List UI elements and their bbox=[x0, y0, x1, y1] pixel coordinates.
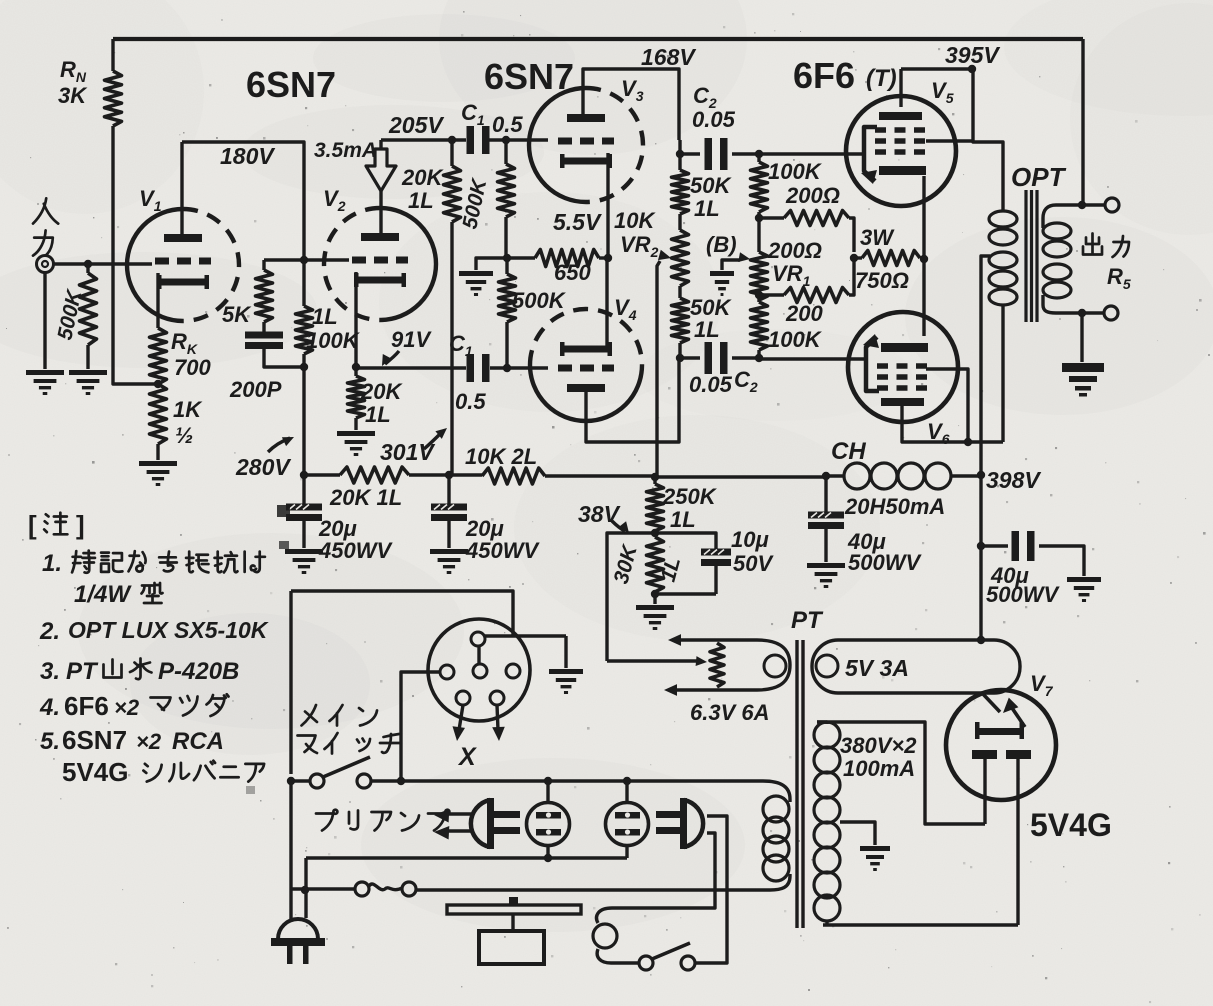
X pin arrow left bbox=[453, 705, 466, 741]
wire to top terminal bbox=[1082, 203, 1105, 206]
wire to bottom terminal bbox=[1082, 311, 1104, 314]
svg-text:×2: ×2 bbox=[136, 729, 162, 754]
svg-text:10μ: 10μ bbox=[731, 527, 769, 552]
resistor 5K bbox=[222, 260, 273, 333]
pilot lamp loop bbox=[593, 908, 639, 963]
dial plate bar bbox=[447, 897, 581, 914]
node 100K/200 junction upper bbox=[755, 214, 763, 222]
node 38V junction bbox=[651, 529, 659, 537]
node 40uF junction bbox=[822, 472, 830, 480]
heater winding loop bbox=[757, 640, 790, 690]
wire heater box top bbox=[291, 591, 513, 636]
node 398V rail junction bbox=[651, 473, 659, 481]
wire input shield down bbox=[43, 272, 46, 369]
label 6SN7 second bbox=[484, 56, 574, 97]
wire plug2 bottom lead bbox=[612, 833, 715, 908]
resistor 50K 1L upper bbox=[672, 140, 733, 221]
socket 1 bbox=[527, 803, 570, 846]
ground bias node bbox=[459, 271, 493, 296]
node output bottom junction bbox=[1078, 309, 1086, 317]
resistor 200 ohm lower bbox=[759, 258, 854, 326]
ground 500K input bbox=[69, 370, 107, 395]
svg-text:10K: 10K bbox=[614, 208, 656, 233]
svg-text:1L: 1L bbox=[312, 304, 338, 329]
X socket pin link bbox=[477, 646, 480, 664]
wire V5 plate lead bbox=[899, 69, 902, 107]
wire V5 screen tie bbox=[926, 139, 973, 142]
svg-text:(T): (T) bbox=[866, 65, 897, 92]
OPT primary center tap bbox=[981, 256, 990, 475]
svg-text:398V: 398V bbox=[986, 467, 1041, 493]
wire plate load down to 301V rail bbox=[450, 222, 453, 475]
wire V6 grid bbox=[759, 357, 864, 360]
svg-text:1L: 1L bbox=[408, 188, 434, 213]
fuse bbox=[355, 882, 416, 896]
label 6.3V 6A bbox=[690, 700, 770, 725]
resistor 500K input bbox=[53, 264, 96, 369]
resistor 750 ohm 3W bbox=[854, 225, 924, 293]
svg-text:301V: 301V bbox=[380, 439, 435, 465]
wire plug stem bbox=[289, 781, 292, 919]
resistor Rk 700 bbox=[150, 328, 212, 384]
wire V2 cathode lead bbox=[354, 272, 357, 367]
svg-text:200: 200 bbox=[785, 301, 823, 326]
wire NFB left drop bbox=[111, 39, 114, 71]
scan artifact marks bbox=[246, 505, 290, 794]
X socket circle bbox=[428, 619, 530, 721]
resistor 500K (V3 grid leak) bbox=[458, 140, 514, 258]
node 750 junction bbox=[850, 254, 858, 262]
wire V7 right plate lead bbox=[1016, 759, 1019, 925]
svg-text:6F6: 6F6 bbox=[793, 55, 855, 96]
svg-text:]: ] bbox=[76, 510, 85, 540]
svg-text:20K: 20K bbox=[360, 379, 403, 404]
label 6F6(T) bbox=[793, 55, 897, 96]
wire 398V down to 5V winding bbox=[979, 475, 982, 640]
wire socket2 bottom bbox=[625, 845, 628, 858]
tube V5 6F6 bbox=[846, 78, 956, 206]
node 395V junction bbox=[968, 65, 976, 73]
PT HV winding 380Vx2 bbox=[814, 722, 917, 925]
wire row2 bbox=[306, 854, 627, 862]
label 280V with arrow bbox=[235, 437, 294, 480]
node 91V junction bbox=[352, 363, 360, 371]
note header [注] bbox=[28, 510, 85, 540]
svg-text:5V4G: 5V4G bbox=[1030, 807, 1112, 843]
ground 30K bbox=[636, 594, 674, 630]
node 40uF second junction bbox=[977, 542, 985, 550]
ground 20uF first bbox=[285, 549, 323, 574]
capacitor 40uF 500WV second bbox=[981, 531, 1084, 607]
HV center tap bbox=[840, 822, 875, 845]
resistor 30K 1L bbox=[610, 537, 686, 592]
X socket pin bottom-left bbox=[456, 691, 470, 705]
svg-text:3K: 3K bbox=[58, 83, 88, 108]
label OPT bbox=[1011, 162, 1067, 192]
wire switch line to PT primary bbox=[763, 781, 790, 799]
resistor 500K (V4 grid leak) bbox=[499, 258, 567, 368]
svg-text:(B): (B) bbox=[706, 232, 737, 257]
OPT secondary top bbox=[1043, 205, 1082, 228]
svg-text:100mA: 100mA bbox=[843, 756, 915, 781]
resistor 1L 100K (V2 grid leak) bbox=[296, 260, 361, 367]
svg-text:1L: 1L bbox=[694, 317, 720, 342]
note 3 PT 山水 P-420B bbox=[40, 658, 239, 685]
svg-text:500WV: 500WV bbox=[986, 582, 1060, 607]
svg-text:6SN7: 6SN7 bbox=[484, 56, 574, 97]
note 1 特記なき抵抗は bbox=[42, 550, 265, 577]
note 1b 1/4W型 bbox=[74, 581, 163, 608]
resistor 20K 1L rail bbox=[304, 467, 449, 510]
socket 2 bbox=[606, 803, 649, 846]
resistor 1K 1/2W bbox=[150, 384, 204, 448]
node 301V junction bbox=[445, 471, 453, 479]
label 3.5mA bbox=[314, 139, 377, 162]
svg-text:6SN7: 6SN7 bbox=[62, 725, 127, 755]
svg-text:100K: 100K bbox=[306, 328, 361, 353]
svg-text:91V: 91V bbox=[391, 327, 432, 352]
svg-text:1/4W: 1/4W bbox=[74, 581, 132, 608]
wire top rail down to output bbox=[1081, 39, 1084, 205]
svg-text:1L: 1L bbox=[365, 402, 391, 427]
wire 205V V2 plate to C1 bbox=[381, 138, 466, 141]
wire switch line bbox=[291, 779, 763, 782]
node switch left bbox=[287, 777, 295, 785]
AC plug bbox=[271, 919, 325, 964]
wire socket1 bottom bbox=[546, 845, 549, 858]
label 205V bbox=[388, 112, 444, 138]
svg-text:500WV: 500WV bbox=[848, 550, 922, 575]
wire V5 cathode lead bbox=[922, 176, 925, 336]
tube V6 6F6 bbox=[848, 312, 958, 447]
svg-text:1L: 1L bbox=[670, 507, 696, 532]
ground 40uF second bbox=[1067, 577, 1101, 602]
svg-text:5.: 5. bbox=[40, 728, 60, 755]
tube V4 6SN7d bbox=[530, 295, 642, 421]
label 180V bbox=[220, 143, 275, 169]
wire V6 plate lead bbox=[902, 401, 1003, 442]
wire V1 plate lead bbox=[180, 142, 183, 234]
wire 5K top bbox=[264, 258, 304, 261]
wire HV bottom to right plate bbox=[823, 923, 1018, 926]
dial lamp box bbox=[479, 931, 544, 964]
VR1 wiper to ground bbox=[722, 252, 750, 270]
node 205V junction bbox=[448, 136, 456, 144]
wire 180V V1 plate to V2 grid bbox=[182, 142, 304, 258]
node 280V rail corner bbox=[300, 471, 308, 479]
label preamp プリアンプ bbox=[316, 810, 449, 831]
ground X socket bbox=[549, 669, 583, 694]
capacitor C1 0.5 lower bbox=[356, 331, 490, 414]
wire fuse to plug bbox=[291, 887, 355, 890]
wire socket1 top bbox=[546, 781, 549, 803]
svg-text:200P: 200P bbox=[229, 377, 282, 402]
capacitor 40uF 500WV first bbox=[808, 476, 922, 575]
wire top B+ / NFB rail bbox=[113, 37, 1083, 41]
svg-text:2.: 2. bbox=[39, 618, 60, 645]
resistor RN 3K (NFB) bbox=[58, 57, 122, 126]
node fuse line tap bbox=[301, 886, 309, 894]
svg-text:P-420B: P-420B bbox=[158, 658, 239, 685]
label 38V with arrow bbox=[578, 501, 629, 533]
wire 10uF bottom bbox=[655, 592, 716, 595]
wire V3 plate to 168V drop bbox=[583, 69, 679, 140]
svg-text:205V: 205V bbox=[388, 112, 444, 138]
svg-text:0.05: 0.05 bbox=[689, 372, 733, 397]
tube V7 5V4G bbox=[946, 671, 1056, 800]
wire V4 cathode lead up bbox=[605, 258, 608, 349]
svg-text:5.5V: 5.5V bbox=[553, 209, 602, 235]
svg-text:50V: 50V bbox=[733, 551, 774, 576]
svg-text:20K 1L: 20K 1L bbox=[329, 485, 402, 510]
node V3 grid junction bbox=[502, 136, 510, 144]
X socket pin left bbox=[440, 665, 454, 679]
capacitor 200P bbox=[229, 332, 283, 403]
node V6 grid junction bbox=[755, 354, 763, 362]
svg-text:RCA: RCA bbox=[172, 728, 224, 755]
svg-text:5V 3A: 5V 3A bbox=[845, 655, 909, 681]
tube V2 6SN7b bbox=[323, 186, 436, 320]
capacitor C2 0.05 upper bbox=[680, 83, 758, 170]
svg-text:4.: 4. bbox=[39, 694, 60, 721]
svg-text:650: 650 bbox=[554, 260, 591, 285]
svg-text:50K: 50K bbox=[690, 173, 732, 198]
svg-text:PT: PT bbox=[66, 658, 99, 685]
VR2 wiper bbox=[657, 250, 671, 477]
svg-text:500K: 500K bbox=[512, 288, 567, 313]
wire socket top bar bbox=[484, 634, 566, 637]
svg-text:10K 2L: 10K 2L bbox=[465, 444, 537, 469]
OPT primary winding bbox=[989, 211, 1017, 305]
label 6SN7 first bbox=[246, 64, 336, 105]
V7 filament bar bbox=[975, 722, 1024, 739]
OPT secondary bottom bbox=[1043, 295, 1082, 313]
tube V3 6SN7c bbox=[529, 76, 644, 202]
capacitor 20uF 450WV second bbox=[431, 475, 540, 563]
resistor 100K lower bbox=[751, 295, 823, 358]
wire PT primary bottom to fuse line bbox=[416, 876, 790, 890]
svg-text:×2: ×2 bbox=[114, 695, 140, 720]
svg-text:200Ω: 200Ω bbox=[767, 238, 822, 263]
ground HV center tap bbox=[860, 846, 890, 871]
node V6 plate junction bbox=[964, 438, 972, 446]
node cathodes junction bbox=[604, 254, 612, 262]
potentiometer VR2 10K bbox=[614, 208, 689, 286]
ground V1 cathode bbox=[139, 461, 177, 486]
svg-text:280V: 280V bbox=[235, 454, 291, 480]
ground V2 cathode res bbox=[337, 431, 375, 456]
tube V1 6SN7a bbox=[127, 186, 239, 321]
ground 40uF first bbox=[807, 563, 845, 588]
wire V3 cathode lead bbox=[606, 153, 609, 258]
OPT primary top lead bbox=[1001, 192, 1004, 210]
resistor 50K 1L lower bbox=[672, 286, 733, 358]
svg-text:450WV: 450WV bbox=[465, 538, 540, 563]
wire V4 plate lead bbox=[586, 358, 679, 442]
resistor 10K 2L rail bbox=[449, 444, 655, 484]
wire left pin to switch line bbox=[401, 672, 440, 780]
OPT secondary winding bbox=[1043, 223, 1071, 298]
svg-text:100K: 100K bbox=[768, 159, 823, 184]
node V5 grid junction bbox=[755, 150, 763, 158]
PT 5V winding bbox=[812, 640, 1020, 693]
label 91V with arrow bbox=[382, 327, 432, 366]
svg-text:395V: 395V bbox=[945, 42, 1000, 68]
node 30K bottom junction bbox=[651, 590, 659, 598]
note 5b 5V4G シルバニア bbox=[62, 757, 264, 787]
X socket pin center bbox=[473, 664, 487, 678]
svg-text:380V×2: 380V×2 bbox=[840, 733, 917, 758]
svg-text:X: X bbox=[457, 743, 477, 771]
plate current arrow V2 bbox=[366, 140, 396, 233]
wire HV top to left plate bbox=[817, 722, 985, 824]
svg-text:200Ω: 200Ω bbox=[785, 183, 840, 208]
plug 2 bbox=[656, 798, 703, 849]
svg-text:PT: PT bbox=[791, 607, 824, 634]
wire secondary to ground bbox=[1080, 313, 1083, 362]
PT primary winding (AC) bbox=[763, 796, 790, 881]
OPT core bbox=[1026, 190, 1037, 322]
svg-text:20K: 20K bbox=[401, 165, 444, 190]
note 2 OPT LUX SX5-10K bbox=[39, 617, 269, 645]
V7 filament bbox=[983, 694, 1025, 727]
plug 1 bbox=[471, 798, 520, 849]
switch main right contact bbox=[357, 774, 371, 788]
switch phono lever bbox=[652, 943, 690, 959]
wire switch left riser bbox=[289, 591, 292, 774]
capacitor C1 0.5 upper bbox=[461, 100, 523, 154]
wire V5 grid bbox=[759, 152, 864, 155]
svg-text:OPT: OPT bbox=[1011, 162, 1067, 192]
note 5 6SN7x2 RCA bbox=[40, 725, 224, 755]
wire 395V node bbox=[901, 69, 1003, 192]
node V4 grid junction bbox=[503, 364, 511, 372]
label 5V4G bbox=[1030, 807, 1112, 843]
node preamp line taps bbox=[397, 777, 631, 785]
ground output (heavy) bbox=[1062, 363, 1104, 397]
node C2 lower junction bbox=[676, 354, 684, 362]
wire 38V box left bbox=[607, 533, 655, 661]
output terminal bottom bbox=[1104, 306, 1118, 320]
wire rail to choke bbox=[655, 475, 826, 478]
wire plug2 top lead bbox=[707, 816, 727, 957]
X pin arrow right bbox=[492, 705, 505, 741]
ground 20uF second bbox=[430, 549, 468, 574]
svg-text:250K: 250K bbox=[662, 484, 718, 509]
preamp arrows bbox=[434, 809, 474, 840]
label 380V winding top stub bbox=[817, 720, 827, 723]
wire phono switch right bbox=[695, 957, 727, 963]
wire 38V box right bbox=[655, 533, 716, 549]
label B bias point bbox=[706, 232, 737, 257]
label X bbox=[457, 743, 477, 771]
svg-text:3W: 3W bbox=[860, 225, 895, 250]
svg-text:3.: 3. bbox=[40, 658, 60, 685]
svg-text:[: [ bbox=[28, 510, 37, 540]
switch main left contact bbox=[310, 774, 324, 788]
potentiometer VR1 200 bbox=[751, 218, 822, 300]
output terminal top bbox=[1105, 198, 1119, 212]
label 395V bbox=[945, 42, 1000, 68]
wire input to V1 grid bbox=[53, 262, 152, 265]
ground input bbox=[26, 370, 64, 395]
switch phono left contact bbox=[639, 956, 653, 970]
OPT primary bottom lead bbox=[1001, 305, 1004, 442]
resistor 250K 1L bbox=[647, 477, 718, 532]
X socket pin right bbox=[506, 664, 520, 678]
svg-text:1K: 1K bbox=[173, 397, 203, 422]
wire 200P bottom bbox=[264, 349, 304, 367]
resistor 20K 1L (V2 cathode) bbox=[348, 367, 404, 430]
wire V7 left plate lead bbox=[983, 759, 986, 824]
wire C1 to V3 grid bbox=[486, 138, 548, 141]
label main switch メインスイッチ bbox=[298, 705, 402, 754]
capacitor 20uF 450WV first bbox=[286, 475, 393, 563]
label 168V bbox=[641, 44, 696, 70]
X socket pin top bbox=[471, 632, 485, 646]
svg-text:0.5: 0.5 bbox=[455, 389, 486, 414]
X socket pin bottom-right bbox=[490, 691, 504, 705]
node V1 cathode junction bbox=[154, 380, 162, 388]
node 5V top junction bbox=[977, 636, 985, 644]
svg-text:1.: 1. bbox=[42, 550, 62, 577]
wire socket2 top bbox=[625, 781, 628, 803]
svg-text:0.05: 0.05 bbox=[692, 107, 736, 132]
svg-text:1L: 1L bbox=[694, 196, 720, 221]
svg-text:450WV: 450WV bbox=[318, 538, 393, 563]
label 5.5V bbox=[553, 209, 602, 235]
node V2 grid junction bbox=[300, 256, 308, 264]
wire V2 grid entry bbox=[304, 258, 349, 261]
switch phono right contact bbox=[681, 956, 695, 970]
wire V1 cathode lead bbox=[156, 273, 159, 328]
svg-text:CH: CH bbox=[831, 438, 866, 465]
V7 plates bbox=[972, 750, 1031, 759]
node output top junction bbox=[1078, 201, 1086, 209]
resistor 20K 1L (V2 plate load) bbox=[401, 140, 461, 222]
svg-text:168V: 168V bbox=[641, 44, 696, 70]
wire V4 grid entry bbox=[490, 366, 548, 369]
wire grid-leak node down to 280V rail bbox=[302, 367, 305, 475]
switch main lever bbox=[323, 757, 370, 777]
svg-text:5K: 5K bbox=[222, 302, 252, 327]
node C2 upper junction bbox=[676, 150, 684, 158]
svg-text:750Ω: 750Ω bbox=[855, 268, 909, 293]
node input-500K junction bbox=[84, 260, 92, 268]
label R5 bbox=[1107, 264, 1131, 292]
node 398V junction bbox=[977, 467, 1042, 493]
node 5K/1L junction bbox=[300, 363, 308, 371]
resistor 100K upper bbox=[751, 154, 823, 218]
note 4 6F6x2 マツダ bbox=[39, 691, 229, 721]
svg-text:6.3V 6A: 6.3V 6A bbox=[690, 700, 770, 725]
capacitor C2 0.05 lower bbox=[680, 342, 758, 397]
label 301V with arrow bbox=[380, 428, 447, 465]
svg-text:3.5mA: 3.5mA bbox=[314, 139, 377, 162]
label input 入力 bbox=[33, 198, 58, 255]
resistor 650 ohm bbox=[507, 250, 605, 286]
capacitor 10uF 50V bbox=[701, 527, 774, 594]
label output 出力 bbox=[1083, 234, 1129, 258]
choke CH 20H 50mA bbox=[826, 438, 981, 519]
wire socket ground drop bbox=[564, 636, 567, 668]
svg-text:½: ½ bbox=[175, 423, 193, 448]
node 100K/200 junction lower bbox=[755, 291, 763, 299]
wire RN bottom to cathode node bbox=[113, 126, 156, 384]
heater hum pot 6.3V bbox=[664, 634, 757, 696]
svg-text:0.5: 0.5 bbox=[492, 112, 523, 137]
input terminal bbox=[37, 256, 54, 273]
